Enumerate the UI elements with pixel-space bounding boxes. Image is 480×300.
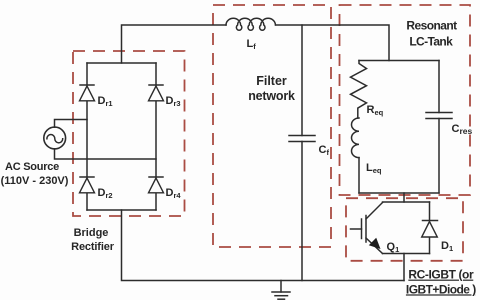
svg-text:AC Source: AC Source <box>5 161 59 173</box>
svg-text:Filter: Filter <box>256 74 287 88</box>
svg-text:Rectifier: Rectifier <box>71 241 115 253</box>
svg-text:Dr2: Dr2 <box>98 187 113 200</box>
svg-text:D1: D1 <box>441 240 453 253</box>
svg-text:Leq: Leq <box>366 162 382 175</box>
svg-text:Q1: Q1 <box>387 241 400 254</box>
svg-text:Dr4: Dr4 <box>166 187 182 200</box>
svg-text:Cf: Cf <box>319 144 330 157</box>
svg-text:Dr3: Dr3 <box>166 95 181 108</box>
svg-text:LC-Tank: LC-Tank <box>409 35 453 49</box>
svg-text:Bridge: Bridge <box>74 227 109 239</box>
svg-text:Dr1: Dr1 <box>98 95 113 108</box>
svg-text:Resonant: Resonant <box>406 19 457 33</box>
svg-text:RC-IGBT (or: RC-IGBT (or <box>408 268 474 282</box>
svg-text:IGBT+Diode ): IGBT+Diode ) <box>406 282 476 296</box>
svg-text:Req: Req <box>367 104 384 117</box>
svg-text:network: network <box>248 89 295 103</box>
svg-text:Lf: Lf <box>247 38 257 51</box>
svg-text:(110V - 230V): (110V - 230V) <box>1 175 69 187</box>
